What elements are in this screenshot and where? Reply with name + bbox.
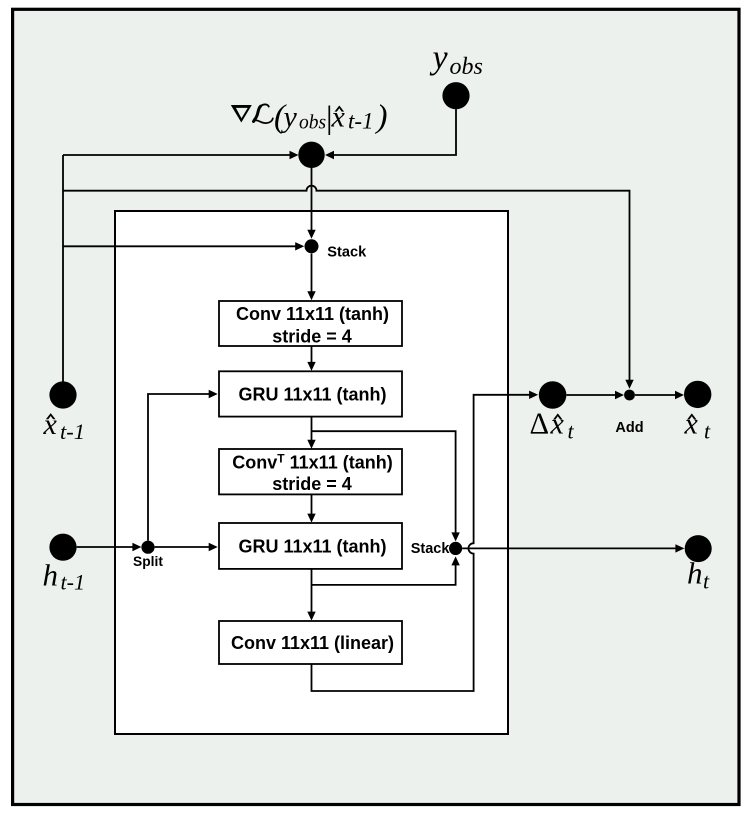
svg-text:t-1: t-1: [60, 419, 85, 444]
svg-text:x: x: [43, 408, 58, 441]
wire GRU branch to right stack node: [312, 431, 456, 539]
svg-text:GRU 11x11 (tanh): GRU 11x11 (tanh): [238, 537, 386, 557]
wire GRU2 down to Conv linear: [311, 569, 313, 618]
wire split node to GRU2: [155, 546, 216, 548]
wire ConvT to GRU2: [311, 494, 313, 520]
svg-text:Conv 11x11 (linear): Conv 11x11 (linear): [231, 633, 394, 653]
wire Conv to GRU: [311, 346, 313, 369]
svg-text:obs: obs: [450, 54, 483, 80]
nabla symbol of gradient label: [231, 105, 252, 123]
node stack right: [449, 542, 462, 555]
svg-text:stride = 4: stride = 4: [272, 474, 352, 494]
node gradient: [298, 142, 324, 168]
svg-text:): ): [375, 99, 388, 135]
inner module box: [115, 211, 508, 734]
box Conv 11x11 linear: [219, 621, 402, 664]
wire y_obs to gradient node: [327, 108, 456, 155]
svg-text:Stack: Stack: [327, 244, 367, 260]
wire h_t-1 to split node: [77, 546, 140, 548]
svg-text:t: t: [703, 569, 710, 594]
svg-text:Conv 11x11 (tanh): Conv 11x11 (tanh): [236, 304, 389, 324]
node y_obs: [442, 82, 469, 109]
svg-text:t: t: [704, 419, 711, 444]
wire right stack node to h_t: [462, 547, 682, 549]
wire Delta x to Add: [566, 394, 621, 396]
wire x_t-1 to gradient node: [63, 154, 296, 156]
svg-text:Δ: Δ: [530, 407, 550, 441]
wire split node up to GRU: [148, 394, 215, 541]
svg-text:h: h: [687, 556, 703, 591]
node stack top: [305, 239, 319, 253]
wire stack node to Conv box: [311, 254, 313, 298]
wire skip connection to Add (hops over gradient drop): [63, 186, 630, 386]
svg-text:t-1: t-1: [348, 109, 374, 134]
svg-text:GRU 11x11 (tanh): GRU 11x11 (tanh): [238, 385, 386, 405]
svg-text:Add: Add: [615, 420, 643, 436]
wire Add to x_t: [635, 394, 682, 396]
wire GRU to ConvT: [311, 417, 313, 447]
script L of gradient label: [254, 104, 273, 123]
svg-text:x: x: [550, 408, 565, 441]
svg-text:Stack: Stack: [411, 541, 451, 557]
svg-text:y: y: [430, 39, 449, 76]
node h_t-1: [49, 534, 76, 561]
node split: [141, 541, 154, 554]
wire x_t-1 riser: [62, 155, 64, 382]
node Delta x_t: [539, 381, 567, 409]
box Conv 11x11 tanh stride 4: [219, 301, 402, 346]
wire GRU2 branch up to right stack node: [312, 559, 456, 585]
svg-text:ConvT 11x11 (tanh): ConvT 11x11 (tanh): [232, 452, 392, 473]
svg-text:y: y: [281, 101, 298, 134]
svg-text:Split: Split: [133, 554, 163, 569]
svg-text:x: x: [684, 408, 699, 441]
svg-text:t: t: [568, 419, 575, 444]
node Add: [624, 390, 635, 401]
svg-text:t-1: t-1: [61, 570, 85, 595]
box GRU 11x11 tanh (lower): [219, 523, 402, 569]
node x_t-1: [49, 381, 76, 408]
wire x_t-1 to stack node: [63, 245, 302, 247]
wire gradient node to stack node: [311, 168, 313, 237]
box GRU 11x11 tanh (upper): [219, 371, 402, 416]
node x_t: [684, 381, 711, 408]
wire Conv linear feedback to Delta x (hops over h_t line): [312, 395, 536, 691]
svg-text:stride = 4: stride = 4: [272, 326, 352, 346]
svg-text:obs: obs: [299, 113, 326, 134]
svg-text:x: x: [331, 101, 346, 134]
box ConvT 11x11 tanh stride 4: [219, 449, 402, 494]
node h_t: [685, 535, 712, 562]
svg-text:h: h: [43, 558, 59, 593]
